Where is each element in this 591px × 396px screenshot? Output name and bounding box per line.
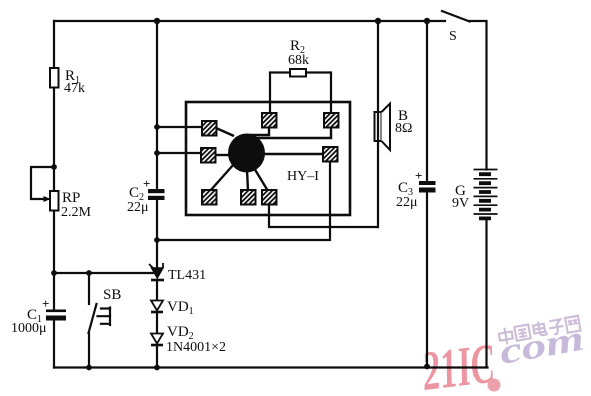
svg-text:+: + xyxy=(42,296,49,311)
svg-text:TL431: TL431 xyxy=(168,268,206,283)
svg-text:68k: 68k xyxy=(288,53,309,68)
svg-text:1000μ: 1000μ xyxy=(11,321,47,336)
svg-text:VD1: VD1 xyxy=(167,299,194,317)
svg-text:SB: SB xyxy=(103,287,121,303)
svg-text:8Ω: 8Ω xyxy=(395,121,412,136)
svg-text:HY–I: HY–I xyxy=(287,169,319,184)
svg-text:21IC: 21IC xyxy=(418,332,498,396)
svg-text:22μ: 22μ xyxy=(396,195,418,210)
svg-text:+: + xyxy=(415,168,422,183)
svg-text:2.2M: 2.2M xyxy=(61,205,92,220)
svg-text:22μ: 22μ xyxy=(127,200,149,215)
svg-text:S: S xyxy=(449,29,457,44)
svg-text:RP: RP xyxy=(62,190,80,206)
svg-text:9V: 9V xyxy=(452,196,469,211)
svg-text:47k: 47k xyxy=(64,81,85,96)
svg-text:com: com xyxy=(497,319,587,372)
svg-text:+: + xyxy=(143,176,150,191)
svg-text:1N4001×2: 1N4001×2 xyxy=(166,340,226,355)
